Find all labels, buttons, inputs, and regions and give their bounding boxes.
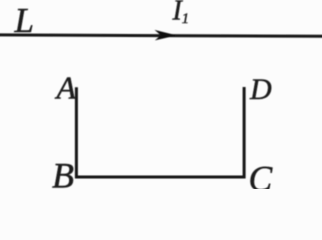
svg-text:C: C bbox=[249, 159, 273, 190]
wire L (long straight wire with current I1) bbox=[0, 35, 322, 36]
svg-text:L: L bbox=[14, 1, 34, 40]
wire AB (left side of loop) bbox=[75, 87, 78, 178]
svg-text:D: D bbox=[249, 73, 272, 106]
current arrowhead I1 bbox=[155, 30, 177, 41]
wire BC (bottom side of loop) bbox=[75, 175, 246, 178]
svg-text:B: B bbox=[52, 156, 74, 190]
svg-text:A: A bbox=[55, 70, 77, 106]
wire DC (right side of loop) bbox=[243, 87, 246, 178]
svg-text:1: 1 bbox=[182, 11, 189, 27]
